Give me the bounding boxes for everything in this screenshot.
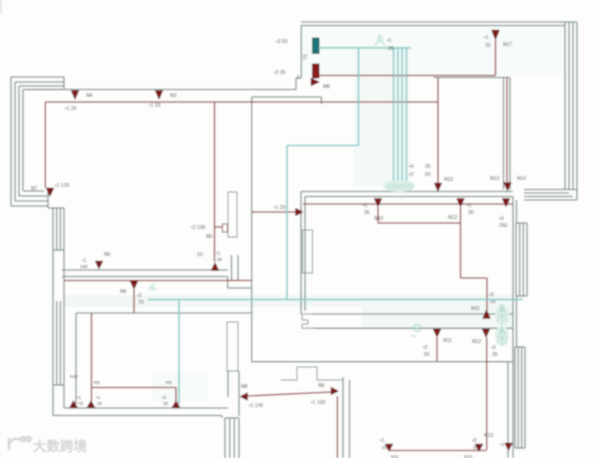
- socket N5 up: [197, 251, 223, 271]
- wall right bundle (4 lines): [565, 22, 577, 190]
- wire N6 drop: [133, 290, 135, 314]
- socket N9: [311, 383, 339, 406]
- switch box kitchen: [215, 224, 228, 232]
- socket N4: [65, 91, 93, 113]
- svg-text:•1 25: •1 25: [274, 205, 286, 211]
- wire bottomleft room: [92, 388, 177, 402]
- svg-text:•3: •3: [491, 345, 496, 351]
- bay right horizontals: [524, 190, 577, 201]
- svg-text:•4: •4: [409, 164, 414, 170]
- svg-text:N10: N10: [374, 216, 383, 222]
- svg-text:50: 50: [424, 352, 430, 358]
- svg-text:•1 125: •1 125: [55, 183, 69, 189]
- svg-text:N4: N4: [86, 93, 93, 99]
- socket bl-2: [87, 380, 103, 408]
- cyan feed horizontal: [319, 47, 411, 49]
- wire kitchen drop: [214, 102, 216, 262]
- wire living jog: [378, 207, 487, 310]
- svg-text:N12: N12: [444, 177, 453, 183]
- wall living top (double): [301, 192, 513, 197]
- socket living c: [499, 199, 510, 230]
- socket living a: [363, 199, 383, 223]
- socket N13 bath: [490, 176, 511, 191]
- cyan drop bottomleft: [178, 300, 180, 405]
- door leaf bottomleft: [227, 322, 238, 371]
- svg-text:70: 70: [78, 401, 84, 406]
- svg-text:26: 26: [388, 46, 394, 52]
- wall bottommid top: [252, 361, 513, 363]
- svg-text:•2: •2: [137, 293, 142, 299]
- socket N3: [149, 91, 177, 110]
- svg-text:大数跨境: 大数跨境: [33, 438, 87, 454]
- svg-text:35: 35: [364, 210, 370, 216]
- wall bottomleft right step: [222, 371, 239, 418]
- wall bottomleft bottom (double): [53, 408, 228, 416]
- svg-text:•3: •3: [499, 216, 504, 222]
- watermark logo: [9, 437, 31, 450]
- edge artifact: [0, 0, 2, 14]
- svg-text:N11: N11: [471, 306, 480, 312]
- svg-text:10: 10: [197, 252, 203, 258]
- svg-text:•3 50: •3 50: [276, 39, 288, 45]
- wire bottomright room: [389, 450, 487, 452]
- svg-text:•1: •1: [380, 438, 385, 444]
- wall living left pair: [301, 192, 305, 315]
- wire N8-N9: [248, 392, 332, 396]
- svg-text:N12: N12: [472, 339, 481, 345]
- svg-text:35: 35: [217, 257, 223, 262]
- svg-text:N13: N13: [490, 176, 499, 182]
- svg-text:N3: N3: [170, 93, 177, 99]
- wire corridor horizontal: [64, 280, 252, 282]
- cyan fan corridor: [148, 283, 156, 291]
- svg-text:N5: N5: [104, 252, 111, 258]
- label N17 bl: [70, 374, 79, 379]
- door leaf living: [303, 230, 313, 273]
- wall right window hatch mid: [516, 223, 527, 296]
- wire N9 drop: [336, 396, 338, 458]
- socket bl-1: [70, 395, 84, 408]
- svg-text:20: 20: [97, 401, 103, 406]
- svg-text:•2 100: •2 100: [191, 225, 205, 231]
- meter box (red box): [274, 64, 319, 78]
- svg-text:N5: N5: [206, 234, 213, 240]
- svg-text:•2: •2: [423, 345, 428, 351]
- wall top edge (double): [301, 22, 577, 26]
- cyan tree lower: [495, 326, 509, 346]
- socket N8: [240, 384, 263, 409]
- svg-text:•2: •2: [162, 395, 167, 400]
- socket N11 hall: [423, 329, 452, 358]
- svg-text:25: 25: [485, 43, 491, 49]
- svg-text:N8: N8: [241, 384, 248, 390]
- cyan corridor horizontal: [148, 299, 523, 301]
- label kitchen switch: [191, 225, 213, 240]
- svg-text:N6: N6: [120, 289, 127, 295]
- svg-text:•3: •3: [489, 292, 494, 298]
- socket N7: [31, 183, 69, 197]
- svg-text:•1: •1: [500, 442, 505, 447]
- svg-text:•1 145: •1 145: [249, 403, 263, 409]
- watermark text: [33, 438, 87, 454]
- wall bottommid second with notch: [281, 367, 343, 380]
- svg-text:•2: •2: [472, 438, 477, 444]
- svg-text:35: 35: [425, 164, 431, 170]
- svg-text:260: 260: [499, 223, 508, 229]
- svg-text:20: 20: [382, 445, 388, 450]
- wall bottommid right pair: [343, 377, 350, 458]
- socket bottomright c: [484, 433, 513, 451]
- svg-text:N11: N11: [391, 454, 399, 458]
- socket bl-3: [162, 380, 180, 408]
- distribution box feed (cyan box): [276, 38, 319, 54]
- svg-text:70: 70: [303, 54, 309, 60]
- svg-text:•1: •1: [484, 35, 489, 41]
- door leaf kitchen: [228, 192, 237, 237]
- socket N17: [484, 30, 512, 49]
- wire bottomright drop: [486, 338, 488, 451]
- wall left window hatch lower: [53, 301, 64, 385]
- socket living b: [448, 199, 474, 222]
- svg-text:N13: N13: [484, 433, 493, 439]
- svg-text:35: 35: [473, 445, 479, 450]
- socket N12 bath: [434, 177, 453, 192]
- wire bathroom drop: [506, 78, 508, 183]
- svg-text:20: 20: [163, 401, 169, 406]
- wall entry vertical: [300, 26, 302, 79]
- wall bottomleft room top: [76, 312, 252, 314]
- wire meter horizontal: [319, 75, 496, 77]
- wire top room horizontal: [45, 101, 438, 103]
- wall entry jog: [296, 75, 301, 90]
- svg-text:N13: N13: [464, 454, 473, 458]
- socket N11 up: [471, 292, 496, 319]
- wire living horizontal: [303, 203, 513, 205]
- wall top-left room top edge: [26, 89, 296, 91]
- wall corridor top (double): [62, 270, 252, 288]
- svg-text:•1 25: •1 25: [65, 106, 77, 112]
- cyan branch left: [287, 48, 359, 300]
- wire N17 drop: [495, 40, 497, 76]
- cyan tree upper: [495, 304, 509, 326]
- socket bottomright a: [380, 438, 393, 452]
- svg-text:N17: N17: [503, 42, 512, 48]
- wire N11 hall drop: [436, 338, 438, 362]
- svg-text:•2 35: •2 35: [274, 70, 286, 76]
- wall kitchen right vertical: [251, 97, 253, 362]
- wall bottom window hatch: [225, 418, 239, 458]
- wall bottomright left pair: [507, 362, 509, 458]
- socket bottomright b: [472, 438, 483, 452]
- wall kitchen left pair: [232, 255, 239, 281]
- socket N5 corridor: [80, 252, 111, 269]
- socket living left: [274, 205, 303, 216]
- label 70 rotated: [303, 54, 309, 60]
- labels 4-35 2-50: [409, 164, 431, 178]
- wall bathroom top: [434, 77, 511, 79]
- wall bathroom right pair: [504, 78, 511, 190]
- svg-text:N11: N11: [443, 338, 452, 344]
- svg-text:Lx: Lx: [411, 333, 417, 338]
- socket N12 hall: [472, 329, 498, 358]
- cyan fan symbol: [375, 34, 394, 52]
- svg-text:100: 100: [80, 264, 88, 269]
- svg-text:35: 35: [492, 352, 498, 358]
- svg-text:N17: N17: [70, 374, 79, 379]
- label N14: [517, 176, 526, 182]
- socket N6 corridor: [120, 281, 144, 306]
- labels bottomright: [391, 454, 473, 458]
- wall left plain segment: [53, 250, 64, 301]
- svg-text:N6: N6: [94, 380, 100, 385]
- svg-text:N12: N12: [448, 215, 457, 221]
- wire top room left drop: [44, 102, 46, 188]
- cyan lamp hallway: [411, 325, 421, 339]
- svg-text:•1 25: •1 25: [149, 103, 161, 109]
- svg-text:N6: N6: [166, 380, 172, 385]
- wall right segment: [516, 296, 518, 347]
- wall bottomleft interior vertical: [75, 313, 77, 404]
- svg-text:•1: •1: [363, 203, 368, 209]
- svg-text:•1 150: •1 150: [311, 400, 325, 406]
- wall left bottom segment: [53, 385, 64, 416]
- svg-text:30: 30: [468, 210, 474, 216]
- cyan bundle arrows: [383, 180, 415, 192]
- wire bottomleft vertical: [91, 313, 93, 401]
- wall hallway upper (double w/ bracket): [302, 314, 513, 328]
- cyan bundle verticals: [394, 48, 407, 185]
- svg-text:M6: M6: [323, 84, 330, 90]
- svg-text:•1: •1: [467, 203, 472, 209]
- svg-text:•1: •1: [77, 395, 82, 400]
- svg-text:•1: •1: [387, 38, 392, 44]
- entry socket M6: [311, 78, 330, 90]
- wire kitchen to living: [252, 211, 296, 213]
- svg-text:70: 70: [138, 300, 144, 306]
- wire livingN12 drop: [437, 78, 439, 184]
- svg-text:N14: N14: [517, 176, 526, 182]
- svg-text:50: 50: [425, 172, 431, 178]
- svg-text:•2: •2: [409, 172, 414, 178]
- bay window bottom-left (nested lines): [11, 191, 53, 208]
- bay window top-left (nested lines): [11, 77, 64, 206]
- svg-text:N9: N9: [318, 383, 325, 389]
- wall kitchen top: [252, 97, 322, 104]
- svg-text:N7: N7: [31, 186, 38, 192]
- wall left window hatch upper: [53, 208, 64, 250]
- wall right inner vertical pair: [513, 197, 517, 458]
- svg-text:•1: •1: [96, 395, 101, 400]
- wall right window hatch low: [515, 347, 525, 448]
